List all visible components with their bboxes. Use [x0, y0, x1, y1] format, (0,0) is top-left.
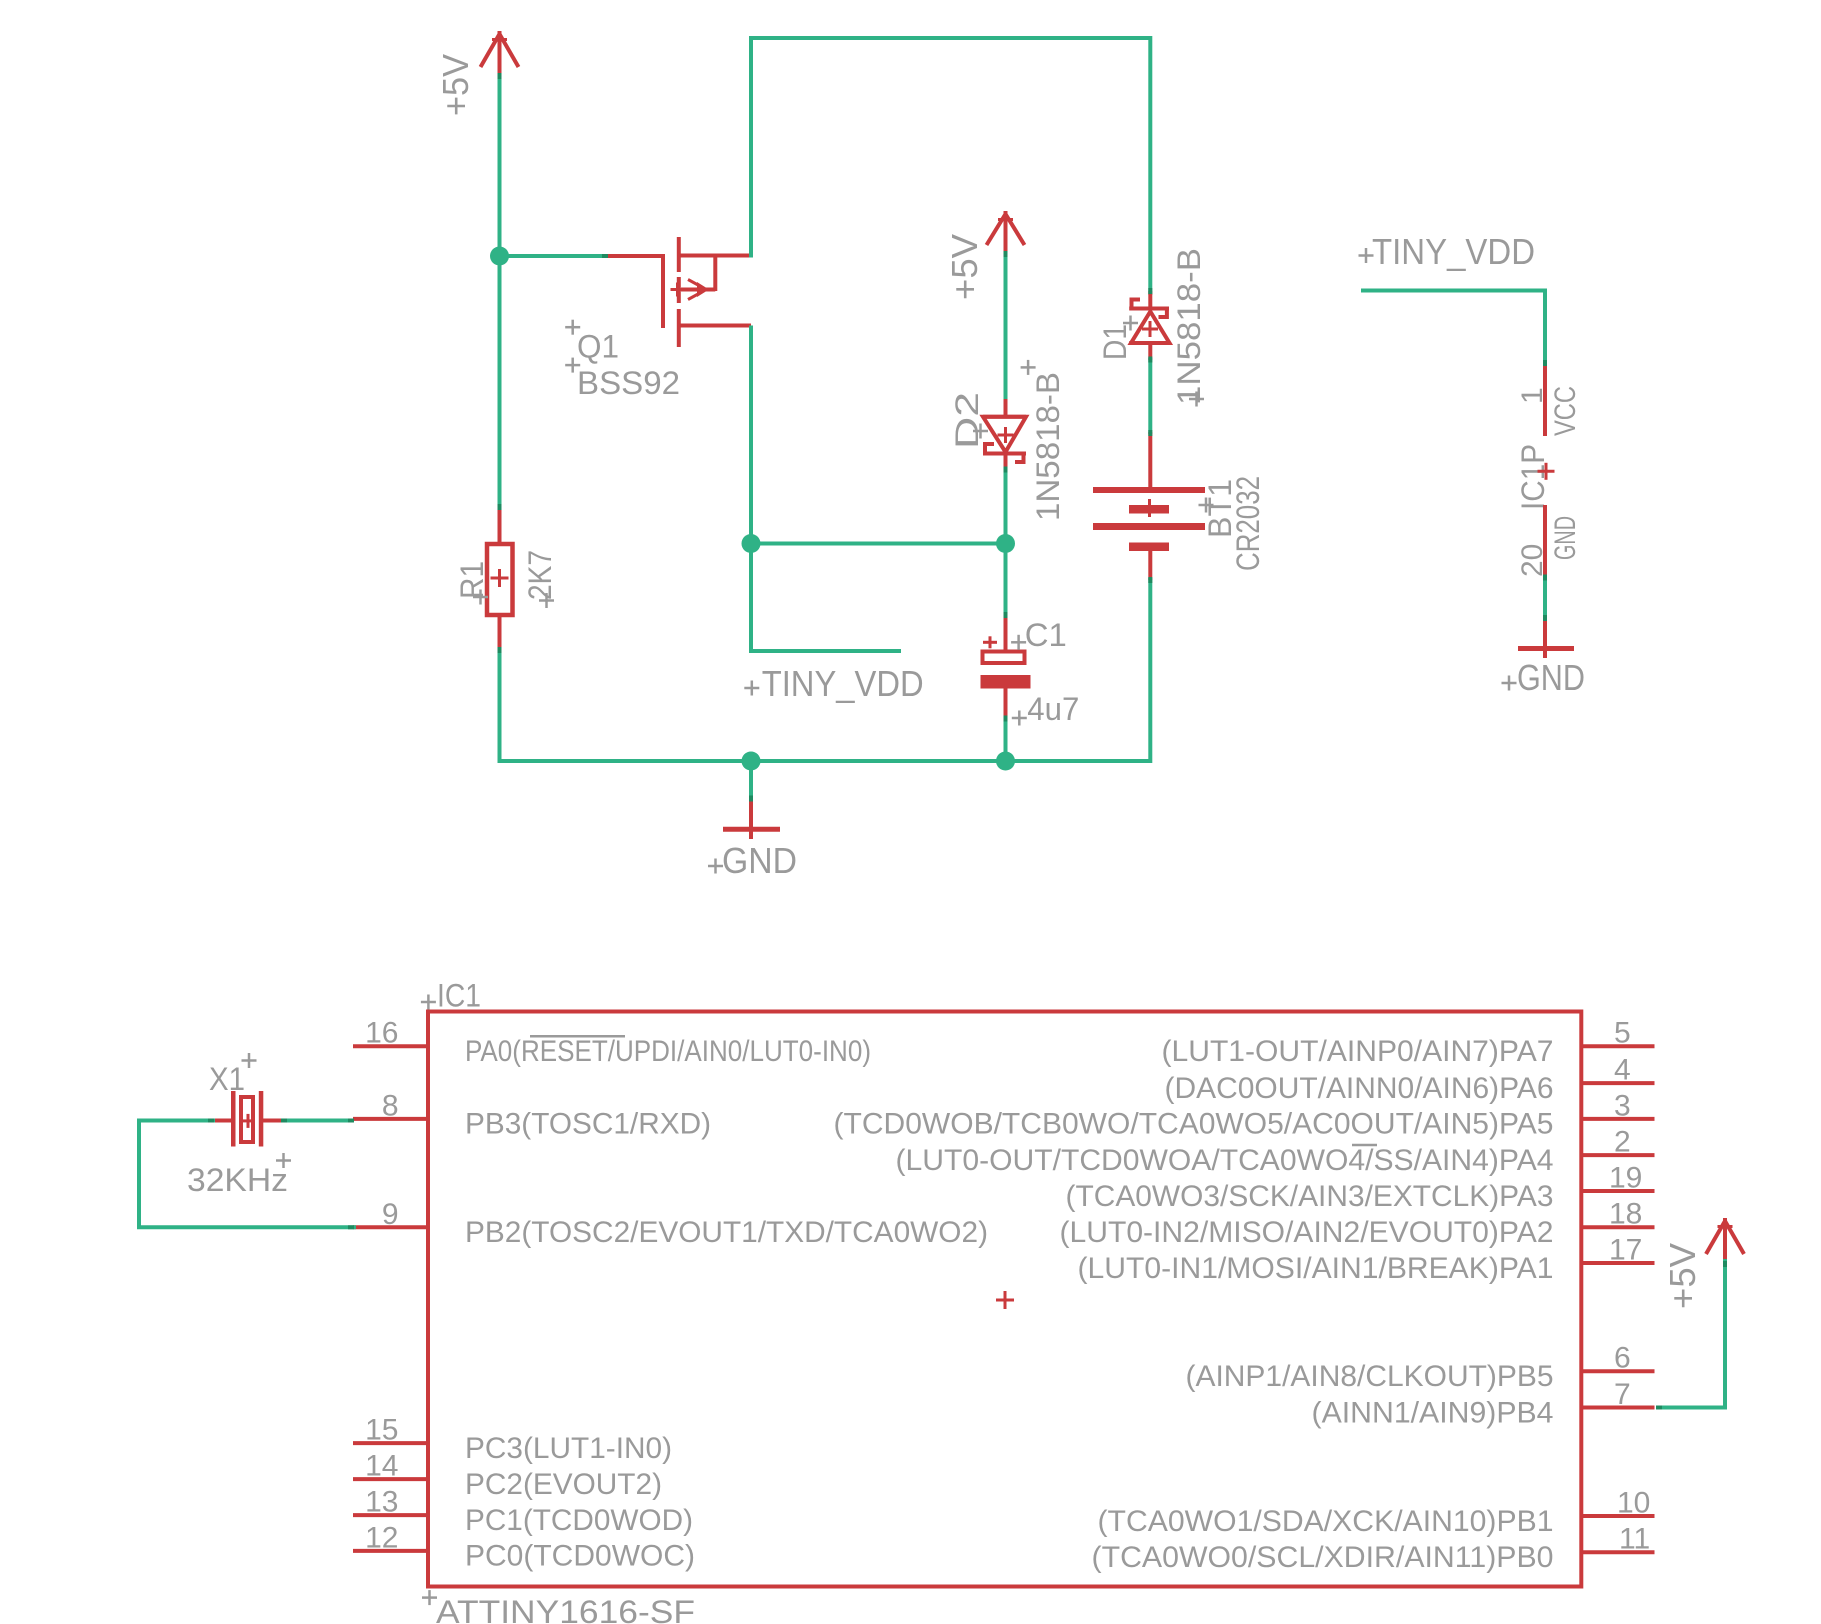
svg-text:PB3(TOSC1/RXD): PB3(TOSC1/RXD)	[465, 1108, 711, 1141]
junction bottom C1 node	[996, 752, 1015, 771]
svg-text:(TCA0WO0/SCL/XDIR/AIN11)PB0: (TCA0WO0/SCL/XDIR/AIN11)PB0	[1092, 1541, 1554, 1574]
svg-text:1: 1	[1516, 387, 1549, 404]
svg-text:X1: X1	[209, 1061, 245, 1097]
wire X1 right to pin 8	[281, 1119, 354, 1123]
svg-text:15: 15	[365, 1414, 398, 1447]
svg-text:3: 3	[1614, 1089, 1631, 1122]
wire BT1 to bottom rail	[1148, 578, 1152, 763]
label Q1	[565, 320, 619, 365]
label IC1P	[1515, 444, 1555, 510]
label BSS92	[565, 358, 680, 401]
wire +5V stem to node	[498, 73, 502, 256]
svg-text:11: 11	[1619, 1523, 1650, 1556]
svg-text:PB2(TOSC2/EVOUT1/TXD/TCA0WO2): PB2(TOSC2/EVOUT1/TXD/TCA0WO2)	[465, 1216, 988, 1249]
label 1N5818-B (D2)	[1021, 360, 1066, 521]
wire overlap marks	[208, 73, 1727, 1410]
svg-text:GND: GND	[1517, 657, 1585, 698]
label D1	[1097, 316, 1138, 361]
wire IC1P GND to ground	[1543, 576, 1547, 619]
svg-text:(LUT1-OUT/AINP0/AIN7)PA7: (LUT1-OUT/AINP0/AIN7)PA7	[1162, 1035, 1554, 1068]
pin 11 (right)	[1581, 1523, 1655, 1556]
svg-text:ATTINY1616-SF: ATTINY1616-SF	[436, 1594, 695, 1624]
svg-text:(DAC0OUT/AINN0/AIN6)PA6: (DAC0OUT/AINN0/AIN6)PA6	[1165, 1072, 1554, 1105]
pin 5 (right)	[1581, 1017, 1655, 1050]
IC IC1 body (ATTINY1616-SF)	[428, 1012, 1581, 1587]
pin 13 (left)	[353, 1486, 428, 1519]
wire source to TINY_VDD node	[749, 326, 753, 546]
pin 17 (right)	[1581, 1234, 1655, 1267]
svg-text:TINY_VDD: TINY_VDD	[1372, 231, 1535, 272]
label IC1	[421, 978, 481, 1014]
svg-text:(TCA0WO3/SCK/AIN3/EXTCLK)PA3: (TCA0WO3/SCK/AIN3/EXTCLK)PA3	[1066, 1180, 1554, 1213]
svg-text:13: 13	[365, 1486, 398, 1519]
ground GND (right)	[1518, 617, 1574, 658]
overline SS (PA4)	[1352, 1144, 1377, 1147]
svg-text:5: 5	[1614, 1017, 1631, 1050]
wire bottom rail	[500, 759, 1151, 763]
wire D2 to node	[1004, 469, 1008, 545]
svg-text:9: 9	[382, 1198, 399, 1231]
svg-text:CR2032: CR2032	[1230, 476, 1266, 571]
pin 10 (right)	[1581, 1487, 1655, 1520]
svg-text:32KHz: 32KHz	[187, 1162, 288, 1198]
pin 9 (left)	[353, 1198, 428, 1231]
label R1	[454, 561, 490, 605]
svg-text:PC0(TCD0WOC): PC0(TCD0WOC)	[465, 1540, 695, 1573]
svg-text:(TCD0WOB/TCB0WO/TCA0WO5/AC0OUT: (TCD0WOB/TCB0WO/TCA0WO5/AC0OUT/AIN5)PA5	[834, 1108, 1554, 1141]
ground GND (left)	[723, 797, 780, 839]
svg-text:D2: D2	[949, 392, 985, 449]
svg-text:18: 18	[1609, 1198, 1642, 1231]
label CR2032	[1199, 476, 1267, 571]
transistor Q1	[604, 237, 751, 347]
svg-text:PC2(EVOUT2): PC2(EVOUT2)	[465, 1468, 662, 1501]
svg-text:8: 8	[382, 1089, 399, 1122]
wire +5V to pin 7	[1658, 1261, 1725, 1408]
label D2	[949, 392, 988, 449]
net label TINY_VDD (right)	[1359, 231, 1536, 272]
svg-text:16: 16	[365, 1017, 398, 1050]
wire TINY_VDD to IC1P VCC	[1363, 291, 1545, 363]
svg-text:PC3(LUT1-IN0): PC3(LUT1-IN0)	[465, 1432, 672, 1465]
crystal X1	[213, 1091, 281, 1147]
svg-text:GND: GND	[722, 840, 797, 881]
svg-text:IC1: IC1	[437, 978, 481, 1014]
svg-text:10: 10	[1617, 1487, 1650, 1520]
svg-text:BSS92: BSS92	[577, 365, 680, 401]
svg-text:+5V: +5V	[435, 54, 476, 116]
junction node R1/Q1-gate	[490, 247, 509, 266]
wire X1 left loop to pin 9	[139, 1121, 354, 1228]
pin 2 (right)	[1581, 1126, 1655, 1159]
junction bottom GND node	[742, 752, 761, 771]
svg-text:GND: GND	[1549, 516, 1582, 560]
pin 16 (left)	[353, 1017, 428, 1050]
wire R1 to bottom rail	[498, 649, 502, 763]
resistor R1	[487, 505, 513, 651]
IC1P pin 20 GND lead	[1543, 505, 1547, 578]
battery BT1	[1093, 432, 1205, 580]
svg-text:PC1(TCD0WOD): PC1(TCD0WOD)	[465, 1504, 693, 1537]
svg-text:C1: C1	[1025, 617, 1067, 653]
svg-text:VCC: VCC	[1549, 386, 1582, 436]
pin 19 (right)	[1581, 1162, 1655, 1195]
svg-text:17: 17	[1609, 1234, 1642, 1267]
svg-text:4u7: 4u7	[1027, 691, 1079, 727]
wire node to C1	[1004, 544, 1008, 617]
junction TINY_VDD node right	[996, 534, 1015, 553]
label 2K7	[522, 550, 558, 608]
svg-text:TINY_VDD: TINY_VDD	[762, 663, 924, 704]
svg-text:12: 12	[365, 1521, 398, 1554]
wire D1 to BT1	[1148, 358, 1152, 434]
wire drain to top rail and down to D1	[751, 38, 1150, 293]
svg-text:2: 2	[1614, 1126, 1631, 1159]
svg-text:1N5818-B: 1N5818-B	[1030, 372, 1066, 521]
svg-text:7: 7	[1614, 1378, 1631, 1411]
svg-text:D1: D1	[1097, 324, 1133, 360]
svg-text:(AINP1/AIN8/CLKOUT)PB5: (AINP1/AIN8/CLKOUT)PB5	[1186, 1360, 1554, 1393]
net label GND (left)	[708, 840, 797, 881]
IC1P pin 1 VCC lead	[1543, 360, 1547, 436]
label 32KHz	[187, 1153, 291, 1198]
wire node to R1	[498, 256, 502, 507]
svg-text:2K7: 2K7	[522, 550, 558, 600]
svg-text:1N5818-B: 1N5818-B	[1171, 248, 1207, 405]
svg-text:6: 6	[1614, 1342, 1631, 1375]
pin 18 (right)	[1581, 1198, 1655, 1231]
svg-text:4: 4	[1614, 1054, 1631, 1087]
pin 7 (right)	[1581, 1378, 1655, 1411]
pin 8 (left)	[353, 1089, 428, 1122]
junction TINY_VDD node left	[742, 534, 761, 553]
svg-text:14: 14	[365, 1450, 398, 1483]
label C1	[1011, 617, 1067, 653]
power +5V flag (D2)	[987, 211, 1025, 253]
svg-text:PA0(RESET/UPDI/AIN0/LUT0-IN0): PA0(RESET/UPDI/AIN0/LUT0-IN0)	[465, 1035, 871, 1068]
net label TINY_VDD (stub)	[744, 663, 923, 704]
svg-text:+5V: +5V	[944, 234, 985, 300]
wire +5V to D2	[1004, 251, 1008, 402]
pin 15 (left)	[353, 1414, 428, 1447]
wire gate node horizontal	[500, 254, 609, 258]
diode D1	[1129, 291, 1169, 360]
pin 12 (left)	[353, 1521, 428, 1554]
svg-text:(LUT0-OUT/TCD0WOA/TCA0WO4/SS/A: (LUT0-OUT/TCD0WOA/TCA0WO4/SS/AIN4)PA4	[896, 1144, 1554, 1177]
wire TINY_VDD mid	[751, 542, 1006, 546]
svg-text:(LUT0-IN1/MOSI/AIN1/BREAK)PA1: (LUT0-IN1/MOSI/AIN1/BREAK)PA1	[1078, 1252, 1554, 1285]
svg-text:(AINN1/AIN9)PB4: (AINN1/AIN9)PB4	[1312, 1396, 1554, 1429]
wire C1 to bottom rail	[1004, 718, 1008, 763]
wire TINY_VDD stub	[751, 544, 899, 652]
IC1 origin cross	[996, 1291, 1014, 1309]
diode D2	[983, 399, 1026, 471]
pin 3 (right)	[1581, 1089, 1655, 1122]
power +5V flag (PB4)	[1706, 1218, 1744, 1263]
svg-text:(LUT0-IN2/MISO/AIN2/EVOUT0)PA2: (LUT0-IN2/MISO/AIN2/EVOUT0)PA2	[1060, 1216, 1554, 1249]
net label GND (right)	[1502, 657, 1586, 698]
svg-text:20: 20	[1516, 544, 1549, 577]
svg-text:Q1: Q1	[577, 329, 619, 365]
pin 4 (right)	[1581, 1054, 1655, 1087]
label ATTINY1616-SF	[422, 1590, 695, 1624]
svg-text:R1: R1	[454, 561, 490, 599]
label X1	[209, 1053, 257, 1097]
wire GND lead	[749, 761, 753, 799]
svg-text:(TCA0WO1/SDA/XCK/AIN10)PB1: (TCA0WO1/SDA/XCK/AIN10)PB1	[1098, 1505, 1554, 1538]
svg-text:19: 19	[1609, 1162, 1642, 1195]
label 1N5818-B (D1)	[1171, 248, 1207, 407]
pin 14 (left)	[353, 1450, 428, 1483]
overline RESET	[530, 1035, 625, 1038]
label 4u7	[1012, 691, 1080, 727]
pin 6 (right)	[1581, 1342, 1655, 1375]
svg-text:+5V: +5V	[1662, 1243, 1703, 1309]
capacitor C1	[981, 614, 1031, 720]
power +5V flag (left)	[481, 31, 519, 74]
